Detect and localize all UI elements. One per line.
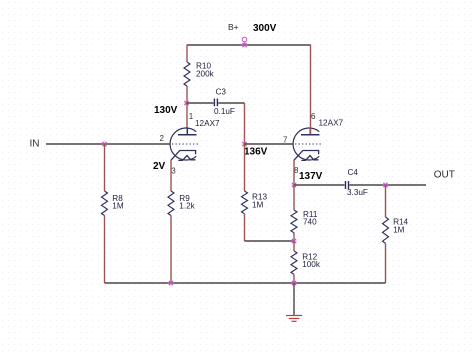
resistor R9 (168, 191, 174, 216)
svg-text:0.1uF: 0.1uF (214, 107, 235, 116)
svg-text:IN: IN (30, 139, 40, 150)
svg-text:1M: 1M (393, 225, 405, 234)
wire R10 top lead (186, 45, 188, 63)
wire grid V2 (245, 143, 294, 145)
tube V1 plate (178, 128, 197, 135)
node OUT junction (383, 182, 389, 188)
svg-text:7: 7 (283, 135, 288, 144)
node R11 R12 junction (291, 238, 297, 244)
op-amp V1 triode 12AX7 (170, 128, 198, 160)
tube V2 envelope (293, 128, 319, 160)
svg-text:200k: 200k (196, 70, 215, 79)
tube V2 plate (301, 128, 320, 135)
svg-text:12AX7: 12AX7 (195, 119, 220, 128)
wire R11 bottom lead (293, 233, 295, 242)
wire cathode V1 lead (170, 160, 172, 191)
tube V1 heater (178, 156, 195, 161)
wire R12 bottom lead (293, 275, 295, 284)
wire R9 bottom lead (170, 216, 172, 284)
tube V1 cathode (171, 151, 196, 161)
wire R14 top lead (385, 185, 387, 217)
svg-text:130V: 130V (154, 105, 178, 116)
svg-text:OUT: OUT (434, 170, 455, 181)
svg-text:1: 1 (189, 112, 194, 121)
wire R13 top lead (244, 144, 246, 191)
wire plate V1 (186, 103, 188, 128)
resistor R8 (102, 191, 108, 216)
node 130V junction (184, 100, 190, 106)
wire C3 to grid V2 (244, 103, 246, 144)
svg-text:6: 6 (311, 112, 316, 121)
wire C3 right lead (218, 102, 244, 104)
node rail R9 junction (168, 280, 174, 286)
svg-text:C3: C3 (216, 87, 227, 96)
tube V2 heater (301, 156, 318, 161)
svg-text:1M: 1M (252, 200, 264, 209)
wire R8 bottom lead (104, 216, 106, 284)
svg-text:12AX7: 12AX7 (319, 118, 344, 127)
node B+ junction (242, 42, 248, 48)
tube V1 grid dashes (172, 143, 199, 145)
resistor R11 (291, 210, 297, 233)
node rail ground junction (291, 280, 297, 286)
tube V2 grid dashes (295, 143, 322, 145)
wire plate V2 from bus (310, 45, 312, 135)
svg-text:C4: C4 (348, 168, 359, 177)
tube V2 cathode (294, 151, 319, 161)
wire C4 right lead to OUT (349, 184, 426, 186)
svg-text:1M: 1M (112, 202, 124, 211)
connector B+ port (242, 37, 247, 42)
svg-text:1.2k: 1.2k (179, 202, 195, 211)
node IN junction (102, 141, 108, 147)
svg-text:3: 3 (171, 166, 176, 175)
resistor R14 (383, 217, 389, 243)
svg-text:100k: 100k (302, 260, 321, 269)
wire B+ stem (244, 42, 246, 45)
resistor R12 (291, 251, 297, 274)
wire top B+ bus (187, 44, 311, 46)
wire R13 to R11 node (245, 240, 295, 242)
tube V1 envelope (170, 128, 196, 160)
wire R12 top lead (293, 241, 295, 251)
wire ground rail (105, 282, 386, 284)
wire R13 bottom lead (244, 214, 246, 241)
wire R11 top lead (293, 185, 295, 210)
svg-text:2V: 2V (153, 161, 166, 172)
svg-text:B+: B+ (228, 22, 239, 32)
op-amp V2 triode 12AX7 (293, 128, 321, 160)
wire R14 bottom lead (385, 244, 387, 284)
node 136V junction (242, 141, 248, 147)
svg-text:3.3uF: 3.3uF (347, 188, 368, 197)
wire IN to grid V1 (46, 143, 170, 145)
node 137V junction (291, 182, 297, 188)
wire R8 top lead (104, 144, 106, 191)
resistor R13 (242, 191, 248, 214)
wire ground stem (293, 283, 295, 315)
resistor R10 (184, 62, 190, 86)
svg-text:136V: 136V (244, 147, 268, 158)
svg-text:300V: 300V (253, 23, 277, 34)
wire C4 left lead (294, 184, 345, 186)
capacitor C3 (214, 99, 217, 107)
wire C3 left lead (187, 102, 214, 104)
svg-text:137V: 137V (299, 171, 323, 182)
capacitor C4 (346, 181, 349, 189)
wire cathode V2 lead (293, 160, 295, 185)
svg-text:2: 2 (160, 134, 165, 143)
wire R10 bottom lead (186, 86, 188, 103)
svg-text:740: 740 (303, 218, 317, 227)
ground (286, 316, 302, 322)
